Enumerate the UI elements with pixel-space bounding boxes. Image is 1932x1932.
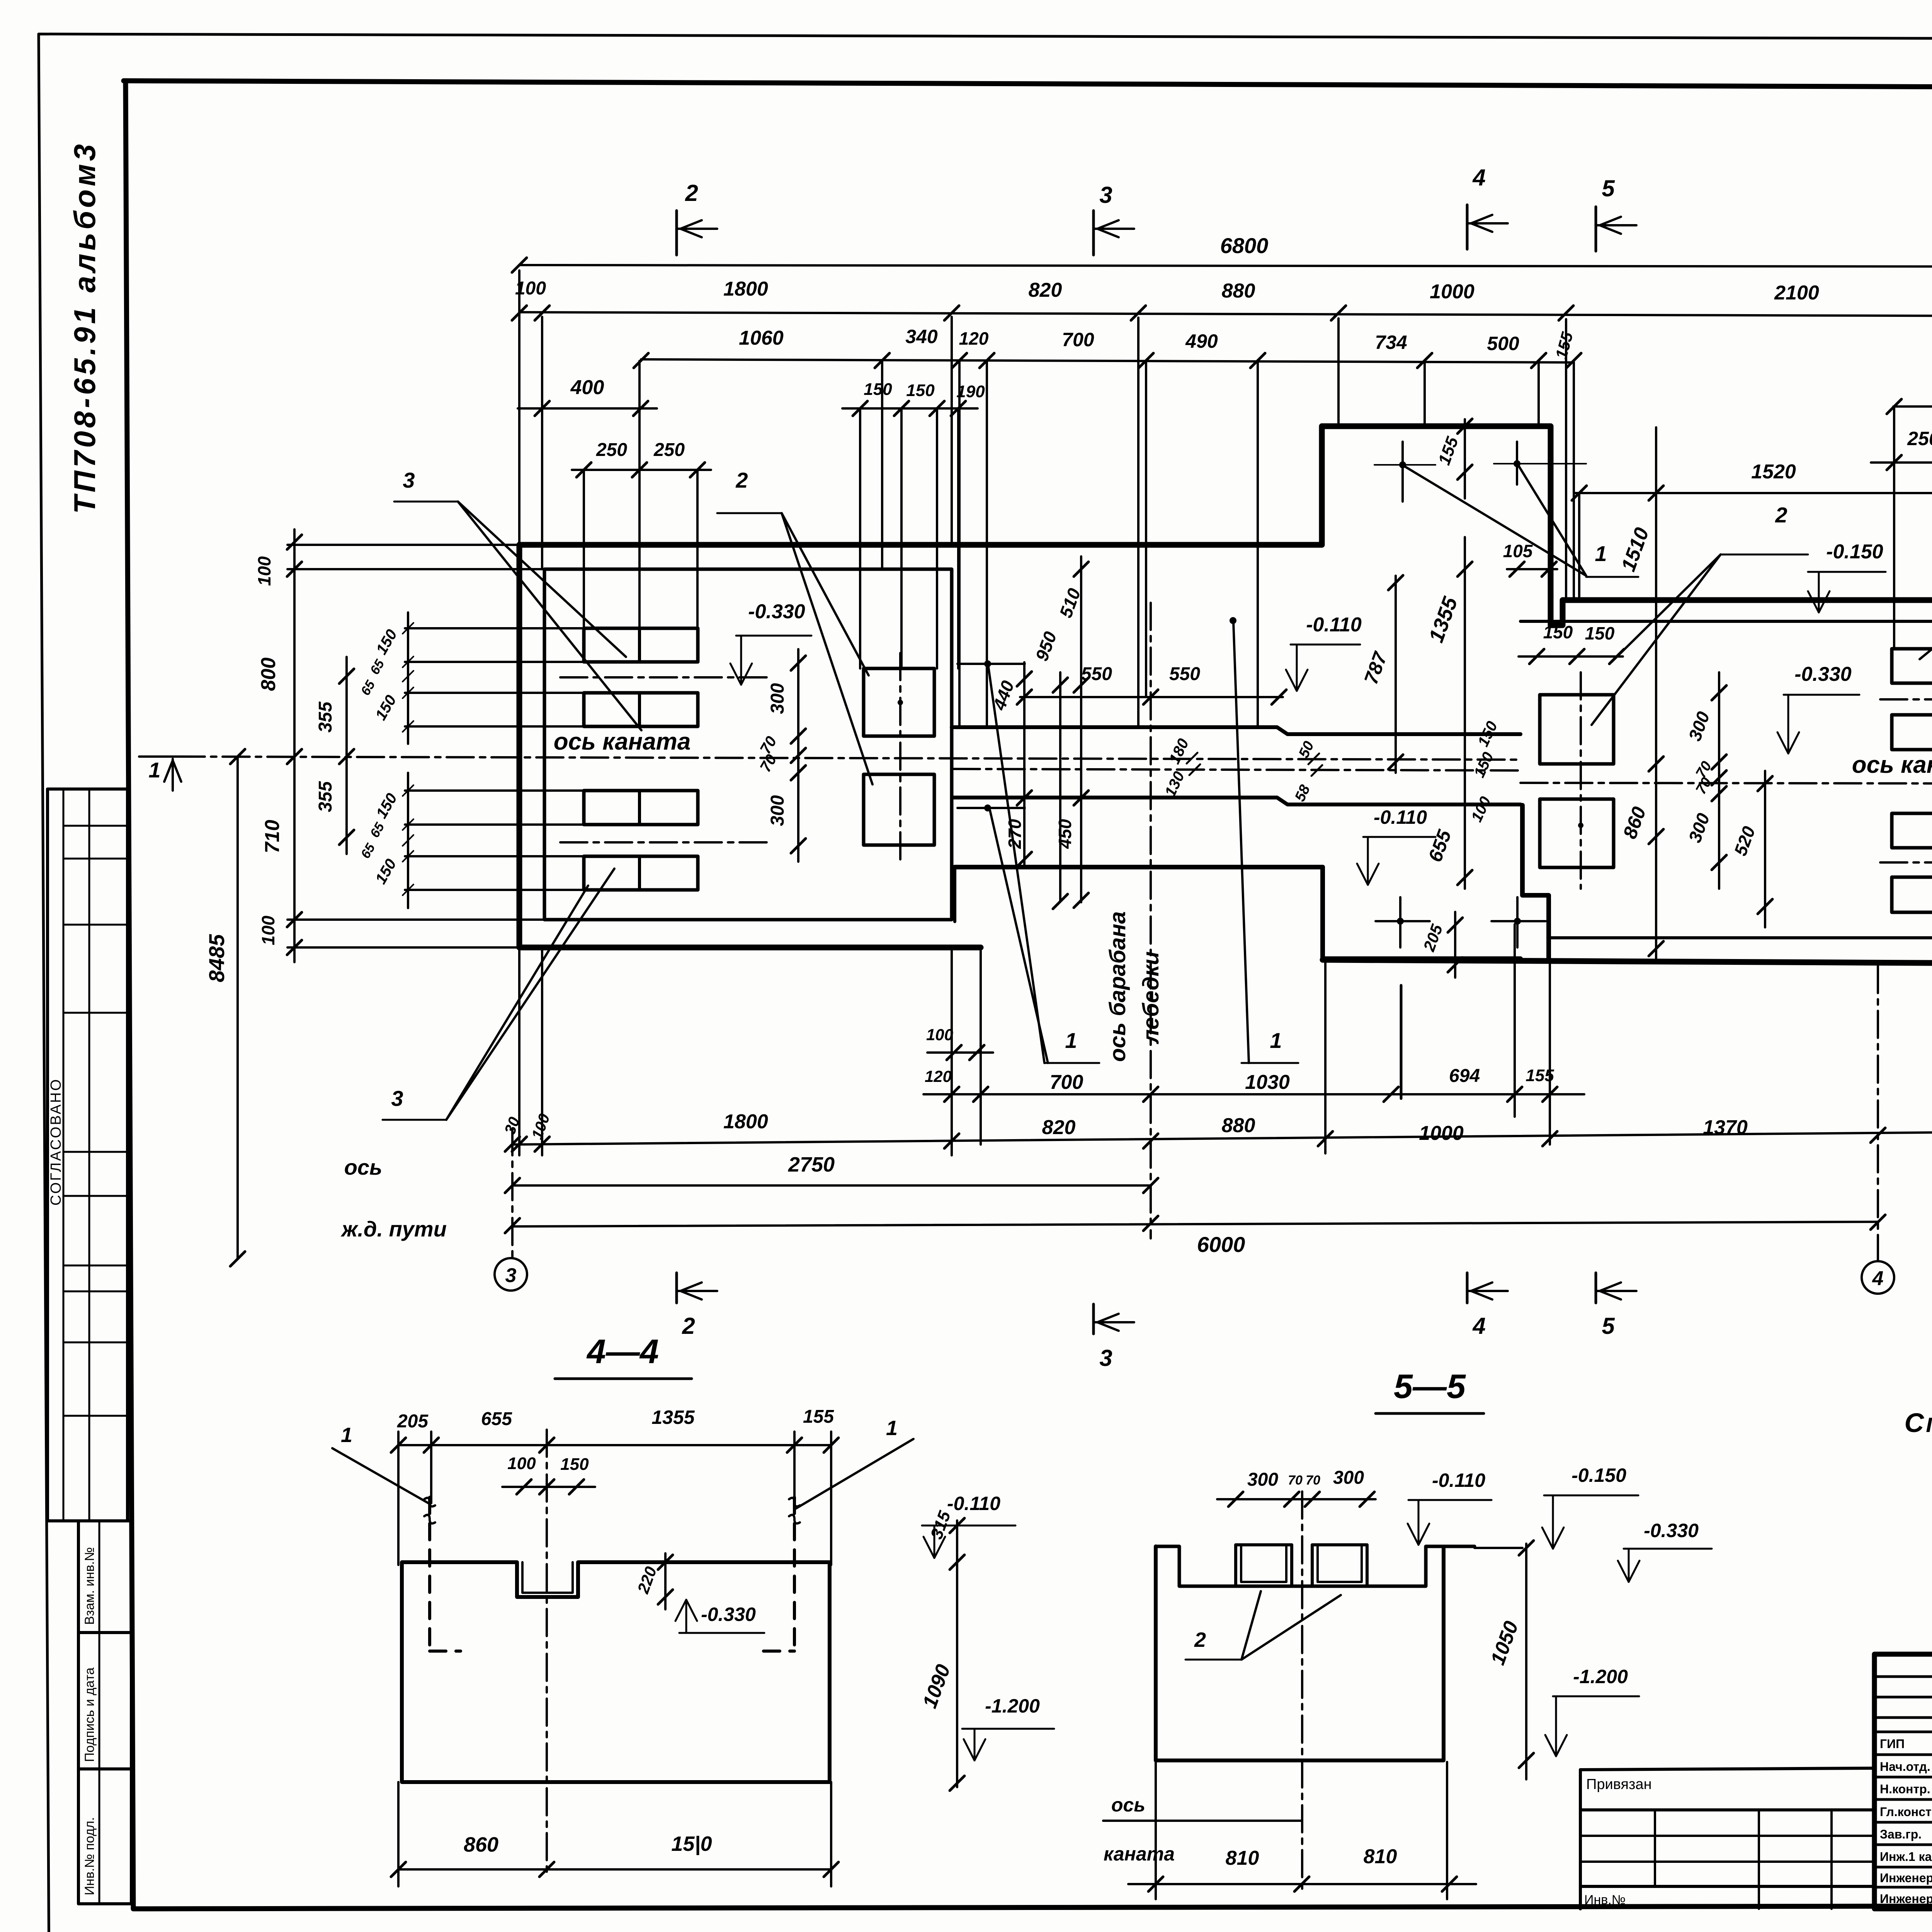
svg-text:250: 250 bbox=[596, 440, 627, 460]
left block anchor slot row 4 bbox=[584, 856, 698, 890]
left dimension ticks 150 65 65 150 upper bbox=[407, 612, 409, 744]
svg-text:Нач.отд.: Нач.отд. bbox=[1880, 1760, 1930, 1774]
section mark 5 bottom bbox=[1595, 1273, 1597, 1303]
svg-text:1800: 1800 bbox=[723, 1111, 768, 1133]
svg-text:Н.контр.: Н.контр. bbox=[1880, 1782, 1930, 1796]
svg-text:лебедки: лебедки bbox=[1138, 951, 1163, 1044]
svg-text:2: 2 bbox=[1194, 1628, 1206, 1651]
left slot extension lines bbox=[405, 627, 584, 629]
bottom dimension 2750 bbox=[512, 1184, 1151, 1187]
foundation plan step under tall block bbox=[1522, 805, 1549, 960]
top extension lines above plan bbox=[518, 270, 520, 545]
rope channel lower edge bbox=[953, 798, 1520, 804]
svg-text:100: 100 bbox=[926, 1026, 953, 1044]
top dimension row 1060 340 120 700 490 734 500 155 bbox=[641, 359, 1574, 362]
svg-text:150: 150 bbox=[864, 380, 892, 399]
sheet inner frame left edge bbox=[126, 81, 133, 1909]
column bubble 4 bbox=[1877, 966, 1879, 1261]
svg-text:300: 300 bbox=[767, 683, 788, 714]
svg-text:Инженер: Инженер bbox=[1880, 1871, 1932, 1885]
interior vertical dimension 440 270 bbox=[1023, 662, 1026, 866]
svg-text:5: 5 bbox=[1602, 175, 1615, 201]
svg-text:3: 3 bbox=[403, 468, 415, 492]
svg-text:ось: ось bbox=[344, 1155, 383, 1179]
svg-text:ось барабана: ось барабана bbox=[1105, 911, 1130, 1062]
section 4-4 bottom dimension 860 1510 bbox=[398, 1868, 831, 1871]
svg-text:300: 300 bbox=[1333, 1468, 1364, 1488]
svg-text:6000: 6000 bbox=[1197, 1232, 1245, 1257]
left dimension ticks 150 65 65 150 lower bbox=[407, 773, 409, 908]
svg-text:3: 3 bbox=[1099, 182, 1112, 208]
svg-text:4—4: 4—4 bbox=[586, 1332, 659, 1371]
title block upper empty rows bbox=[1874, 1675, 1932, 1678]
svg-text:ось: ось bbox=[1111, 1794, 1145, 1816]
center-right square pocket lower bbox=[1540, 799, 1614, 867]
svg-text:150: 150 bbox=[1543, 622, 1573, 642]
rope axis ось каната left part bbox=[178, 757, 1520, 760]
right block anchor slot row 2 bbox=[1892, 715, 1932, 750]
svg-text:ж.д. пути: ж.д. пути bbox=[340, 1217, 447, 1241]
section 5-5 duct box right bbox=[1312, 1545, 1367, 1586]
right slot axis lower bbox=[1880, 861, 1932, 864]
svg-text:5—5: 5—5 bbox=[1394, 1367, 1466, 1405]
svg-text:Подпись и дата: Подпись и дата bbox=[82, 1667, 97, 1762]
section 4-4 anchor bolt dashed right bbox=[793, 1497, 796, 1651]
left block anchor slot row 1 bbox=[584, 628, 698, 662]
svg-text:-0.110: -0.110 bbox=[1432, 1469, 1485, 1491]
svg-text:70: 70 bbox=[1306, 1473, 1320, 1488]
interior vertical dimension 300 70 70 300 center-right bbox=[1718, 672, 1720, 889]
svg-text:1000: 1000 bbox=[1419, 1122, 1464, 1145]
svg-text:150: 150 bbox=[1585, 623, 1615, 643]
svg-text:694: 694 bbox=[1449, 1066, 1480, 1086]
bolt dots row at drum block with cross lines bbox=[1397, 918, 1404, 925]
svg-text:1000: 1000 bbox=[1430, 281, 1475, 303]
svg-text:355: 355 bbox=[315, 701, 336, 733]
svg-text:-0.110: -0.110 bbox=[1374, 806, 1427, 828]
top dimension row 100 1800 820 880 1000 2100 100 bbox=[519, 312, 1932, 316]
svg-text:Инж.1 кат: Инж.1 кат bbox=[1880, 1850, 1932, 1864]
top dimension 250 250 right bbox=[1871, 461, 1932, 464]
svg-text:150: 150 bbox=[906, 381, 935, 400]
svg-text:ГИП: ГИП bbox=[1880, 1737, 1905, 1751]
section 5-5 body outline bbox=[1156, 1546, 1475, 1586]
svg-text:820: 820 bbox=[1029, 279, 1062, 301]
svg-text:6800: 6800 bbox=[1220, 233, 1269, 258]
rope channel upper edge bbox=[952, 727, 1520, 734]
left block anchor slot row 2 bbox=[584, 693, 698, 726]
svg-text:120: 120 bbox=[925, 1067, 952, 1085]
svg-text:190: 190 bbox=[956, 382, 985, 401]
svg-text:Гл.констр.: Гл.констр. bbox=[1880, 1805, 1932, 1819]
svg-text:-0.330: -0.330 bbox=[701, 1604, 756, 1625]
svg-text:2100: 2100 bbox=[1774, 282, 1819, 304]
svg-text:550: 550 bbox=[1081, 664, 1112, 684]
top dimension 425 right bbox=[1893, 405, 1932, 408]
svg-text:490: 490 bbox=[1185, 330, 1218, 352]
section mark 2 bottom bbox=[675, 1273, 678, 1303]
interior vertical dimension 520 bbox=[1764, 771, 1766, 927]
svg-text:ТП708-65.91 альбом3: ТП708-65.91 альбом3 bbox=[68, 141, 102, 514]
svg-text:860: 860 bbox=[464, 1833, 498, 1856]
svg-text:3: 3 bbox=[505, 1264, 517, 1287]
svg-text:880: 880 bbox=[1222, 1114, 1255, 1137]
left strip box Подпись и дата bbox=[78, 1633, 131, 1769]
svg-text:Взам. инв.№: Взам. инв.№ bbox=[82, 1547, 97, 1625]
section 4-4 dimension 220 bbox=[664, 1553, 667, 1609]
section 4-4 anchor bolt break marks bbox=[424, 1498, 435, 1523]
tall block dimension 1355 rotated bbox=[1464, 537, 1466, 889]
svg-text:120: 120 bbox=[959, 328, 989, 349]
svg-text:450: 450 bbox=[1055, 819, 1075, 849]
svg-text:250: 250 bbox=[1907, 428, 1932, 449]
top dimension 150 150 190 bbox=[842, 407, 978, 410]
channel small dimension ticks bbox=[1187, 753, 1197, 764]
right block anchor slot row 1 bbox=[1892, 649, 1932, 683]
top dimension 1520 bbox=[1575, 492, 1932, 494]
right block anchor slot row 3 bbox=[1892, 813, 1932, 848]
section 5-5 center axis ось каната bbox=[1301, 1492, 1303, 1890]
svg-text:355: 355 bbox=[315, 781, 336, 812]
section mark 5 top bbox=[1595, 207, 1597, 251]
svg-text:100: 100 bbox=[507, 1454, 536, 1473]
railway axis left column line bbox=[511, 1128, 514, 1258]
svg-text:-1.200: -1.200 bbox=[1573, 1666, 1628, 1687]
bottom dimension 6000 bbox=[512, 1222, 1878, 1226]
lower middle drum block left edge bbox=[953, 867, 956, 922]
svg-text:1: 1 bbox=[1595, 541, 1607, 566]
lower middle drum block right step bbox=[1323, 867, 1520, 959]
sheet inner frame bottom edge bbox=[133, 1905, 1932, 1909]
small dimension 205 rotated bbox=[1454, 912, 1456, 978]
svg-text:700: 700 bbox=[1050, 1071, 1083, 1094]
svg-text:810: 810 bbox=[1364, 1845, 1397, 1868]
left block inner offset rectangle bbox=[544, 569, 952, 920]
svg-text:1355: 1355 bbox=[651, 1406, 695, 1428]
lower middle drum block top edge bbox=[955, 865, 1323, 869]
svg-text:340: 340 bbox=[905, 326, 938, 347]
svg-text:2: 2 bbox=[735, 468, 748, 492]
section 4-4 extension lines bbox=[397, 1432, 400, 1565]
tall block dimension 155 rotated bbox=[1464, 419, 1466, 498]
svg-text:Инв.№: Инв.№ bbox=[1584, 1893, 1626, 1907]
left overall dimension 8485 bbox=[236, 757, 239, 1259]
svg-text:5: 5 bbox=[1602, 1313, 1615, 1339]
svg-text:734: 734 bbox=[1375, 332, 1407, 353]
left dimension line 355 355 bbox=[345, 657, 348, 854]
svg-text:4: 4 bbox=[1472, 165, 1485, 190]
foundation plan outer outline top and right bbox=[519, 426, 1932, 965]
title block name row lines bbox=[1874, 1753, 1932, 1756]
svg-text:550: 550 bbox=[1169, 664, 1200, 684]
left slot axis upper bbox=[560, 676, 769, 679]
svg-text:810: 810 bbox=[1226, 1847, 1259, 1869]
right slot axis upper bbox=[1880, 698, 1932, 701]
svg-text:70: 70 bbox=[1288, 1473, 1303, 1488]
svg-text:1370: 1370 bbox=[1703, 1116, 1748, 1139]
center-right pocket vertical axis bbox=[1580, 672, 1582, 889]
foundation plan left block bottom and left edge bbox=[519, 545, 981, 947]
svg-text:710: 710 bbox=[261, 820, 284, 854]
section mark 4 top bbox=[1466, 205, 1469, 249]
section mark 3 top bbox=[1092, 211, 1095, 255]
top dimension 250 250 over left slots bbox=[572, 469, 711, 471]
dimension 150 150 at right pockets bbox=[1519, 655, 1623, 658]
svg-text:1520: 1520 bbox=[1751, 461, 1796, 483]
interior vertical dimension 300 70 70 300 center-left bbox=[797, 649, 799, 862]
section 5-5 bottom dimension 810 810 bbox=[1128, 1883, 1476, 1885]
right section inner bottom line bbox=[1549, 936, 1932, 939]
svg-text:3: 3 bbox=[1099, 1345, 1112, 1371]
section mark 2 top bbox=[675, 211, 678, 255]
left strip approval table row lines bbox=[63, 825, 128, 827]
extension verticals below plan bottom bbox=[980, 951, 982, 1145]
svg-text:1800: 1800 bbox=[723, 278, 768, 300]
svg-text:1: 1 bbox=[1270, 1028, 1282, 1053]
center-right square pocket upper bbox=[1540, 695, 1614, 764]
svg-text:Привязан: Привязан bbox=[1586, 1776, 1652, 1793]
svg-text:655: 655 bbox=[481, 1409, 512, 1429]
left extension lines of plan edges bbox=[287, 544, 519, 546]
svg-text:4: 4 bbox=[1872, 1267, 1884, 1290]
svg-text:400: 400 bbox=[570, 376, 604, 399]
svg-text:100: 100 bbox=[254, 556, 274, 586]
svg-text:2: 2 bbox=[682, 1313, 695, 1339]
section 4-4 dimension 315 1090 bbox=[956, 1520, 958, 1787]
sheet inner frame top edge bbox=[124, 81, 1932, 89]
top dimension 400 bbox=[518, 407, 657, 410]
left slot axis lower bbox=[560, 841, 769, 844]
svg-text:-0.110: -0.110 bbox=[947, 1493, 1000, 1514]
svg-text:Инженер: Инженер bbox=[1880, 1892, 1932, 1906]
interior vertical dimension 950 bbox=[1059, 672, 1061, 901]
svg-text:-0.110: -0.110 bbox=[1306, 614, 1362, 636]
tall block dimension 787 rotated bbox=[1395, 576, 1397, 773]
svg-text:1030: 1030 bbox=[1245, 1071, 1290, 1094]
section 5-5 duct box left bbox=[1236, 1545, 1292, 1586]
svg-text:Смотреть совместно с листом: Смотреть совместно с листом 26. bbox=[1905, 1408, 1932, 1438]
svg-text:каната: каната bbox=[1104, 1843, 1175, 1865]
svg-text:-0.330: -0.330 bbox=[748, 600, 805, 623]
svg-text:205: 205 bbox=[397, 1411, 429, 1432]
right section inner top line bbox=[1520, 620, 1932, 623]
svg-text:3: 3 bbox=[391, 1086, 403, 1111]
section 4-4 notch inner lines bbox=[522, 1562, 573, 1593]
svg-text:-0.150: -0.150 bbox=[1826, 541, 1883, 563]
left strip box Взам. инв.№ bbox=[78, 1521, 131, 1633]
section mark 4 bottom bbox=[1466, 1273, 1469, 1303]
svg-text:300: 300 bbox=[767, 795, 788, 826]
section 4-4 top dimension 205 655 1355 155 bbox=[398, 1444, 831, 1446]
svg-text:500: 500 bbox=[1487, 333, 1519, 354]
svg-text:4: 4 bbox=[1472, 1313, 1485, 1339]
interior dimension 550 550 over channel bbox=[1020, 696, 1283, 698]
right block anchor slot row 4 bbox=[1892, 877, 1932, 912]
svg-text:820: 820 bbox=[1042, 1116, 1076, 1139]
svg-text:1: 1 bbox=[1065, 1028, 1077, 1053]
section 4-4 body outline with notch bbox=[402, 1562, 830, 1782]
svg-text:1060: 1060 bbox=[739, 327, 784, 349]
svg-text:2: 2 bbox=[685, 180, 698, 206]
svg-text:8485: 8485 bbox=[204, 934, 229, 982]
center-left square pocket upper bbox=[864, 668, 934, 736]
bottom dimension row 30 100 1800 820 880 1000 1370 730 100 bbox=[512, 1131, 1932, 1145]
svg-text:800: 800 bbox=[257, 658, 280, 691]
svg-text:Зав.гр.: Зав.гр. bbox=[1880, 1827, 1922, 1841]
svg-text:СОГЛАСОВАНО: СОГЛАСОВАНО bbox=[48, 1078, 64, 1206]
svg-text:155: 155 bbox=[803, 1406, 834, 1427]
svg-text:-0.330: -0.330 bbox=[1794, 663, 1852, 685]
rope channel second axis line bbox=[953, 769, 1520, 770]
tall block dimension 105 bbox=[1507, 568, 1557, 570]
svg-text:-0.330: -0.330 bbox=[1644, 1520, 1699, 1541]
bottom extension lines bbox=[518, 947, 520, 1155]
title block outer frame bbox=[1874, 1654, 1932, 1909]
winch drum axis vertical ось барабана bbox=[1150, 603, 1152, 1238]
svg-text:2: 2 bbox=[1775, 503, 1787, 527]
svg-text:1: 1 bbox=[886, 1417, 898, 1440]
svg-text:15|0: 15|0 bbox=[671, 1832, 712, 1855]
svg-text:1: 1 bbox=[341, 1423, 352, 1447]
svg-text:-0.150: -0.150 bbox=[1571, 1464, 1626, 1486]
section 4-4 anchor bolt dashed left bbox=[428, 1497, 431, 1651]
svg-text:ось каната: ось каната bbox=[554, 728, 691, 755]
svg-text:ось каната: ось каната bbox=[1852, 752, 1932, 778]
rope axis ось каната right part bbox=[1520, 783, 1932, 784]
column bubble 3 bbox=[495, 1258, 527, 1291]
svg-text:155: 155 bbox=[1526, 1066, 1554, 1085]
svg-text:300: 300 bbox=[1247, 1469, 1278, 1490]
svg-text:1: 1 bbox=[148, 758, 160, 782]
svg-text:-1.200: -1.200 bbox=[985, 1695, 1040, 1717]
left block anchor slot row 3 bbox=[584, 791, 698, 825]
left strip approval table outer box bbox=[48, 789, 128, 1521]
svg-text:700: 700 bbox=[1062, 329, 1094, 350]
attachment box Привязан bbox=[1580, 1768, 1874, 1770]
section 5-5 top dimension 300 70 70 300 bbox=[1217, 1498, 1376, 1500]
svg-text:2750: 2750 bbox=[788, 1153, 835, 1176]
section 4-4 dimension 100 150 bbox=[502, 1486, 595, 1488]
section 5-5 dimension 1050 bbox=[1525, 1544, 1527, 1779]
svg-text:250: 250 bbox=[653, 440, 685, 460]
section mark 3 bottom bbox=[1092, 1304, 1095, 1334]
left strip approval table column dividers bbox=[63, 789, 65, 1521]
svg-text:150: 150 bbox=[560, 1455, 589, 1474]
svg-text:880: 880 bbox=[1222, 280, 1255, 302]
svg-text:100: 100 bbox=[258, 915, 278, 945]
svg-text:105: 105 bbox=[1503, 541, 1533, 561]
interior vertical dimension 1510 and 860 bbox=[1655, 427, 1657, 962]
left strip box Инв.№ подл. bbox=[78, 1769, 131, 1904]
left dimension line 100 800 710 100 bbox=[293, 529, 296, 962]
section 5-5 extension lines bbox=[1155, 1762, 1157, 1899]
svg-text:Инв.№ подл.: Инв.№ подл. bbox=[82, 1817, 97, 1895]
section 4-4 center axis bbox=[546, 1430, 548, 1875]
interior vertical dimension 510 450 bbox=[1080, 556, 1082, 902]
center-left pocket vertical axis bbox=[899, 653, 901, 866]
top dimension line 6800 bbox=[519, 265, 1932, 267]
center-left square pocket lower bbox=[864, 774, 934, 845]
